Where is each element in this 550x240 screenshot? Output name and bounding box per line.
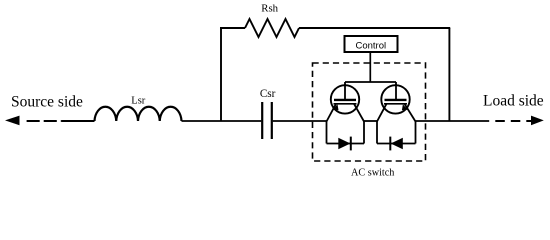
svg-text:AC switch: AC switch xyxy=(351,168,394,179)
svg-text:Load side: Load side xyxy=(483,93,544,110)
svg-text:Lsr: Lsr xyxy=(131,96,146,107)
svg-text:Control: Control xyxy=(355,40,386,51)
svg-text:Csr: Csr xyxy=(260,88,276,100)
svg-text:Source side: Source side xyxy=(11,94,83,111)
svg-text:Rsh: Rsh xyxy=(261,2,278,14)
